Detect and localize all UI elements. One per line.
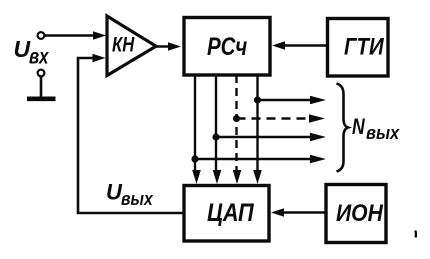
scan artifact mark (414, 231, 417, 238)
svg-text:ИОН: ИОН (336, 200, 383, 227)
comparator KН (107, 16, 156, 76)
svg-text:вых: вых (121, 188, 154, 210)
svg-text:вх: вх (29, 46, 50, 69)
wire comparator output to РСч (156, 42, 181, 51)
block РСч (184, 18, 270, 76)
output arrow 2 (dashed) (237, 114, 326, 123)
svg-text:ГТИ: ГТИ (344, 33, 385, 60)
ground (27, 77, 56, 99)
junction dot on bus 2 (212, 133, 219, 140)
input terminal (Uвх) (38, 32, 45, 39)
feedback wire ЦАП to comparator (Uвых net) (78, 54, 184, 213)
svg-text:N: N (352, 115, 365, 139)
junction dot on bus 4 (254, 96, 261, 103)
junction dot on bus 3 (233, 115, 240, 122)
output arrow 1 (258, 96, 327, 105)
svg-text:ЦАП: ЦАП (207, 199, 255, 227)
label Nвых (352, 115, 400, 143)
wire ИОН to ЦАП (271, 208, 326, 217)
svg-text:вых: вых (366, 122, 400, 143)
lower terminal (38, 70, 45, 77)
output arrow 4 (195, 155, 326, 164)
block ИОН (326, 185, 386, 243)
output arrow 3 (216, 133, 326, 142)
block ГТИ (328, 19, 389, 77)
wire ГТИ to РСч (272, 41, 328, 50)
junction dot on bus 1 (191, 155, 198, 162)
bus wire 1 (РСч to ЦАП) (192, 75, 201, 184)
block ЦАП (184, 186, 269, 242)
svg-text:КН: КН (112, 34, 134, 57)
bus wire 2 (213, 75, 222, 184)
label Uвых (106, 180, 154, 210)
svg-text:РСч: РСч (207, 32, 247, 60)
bus wire 4 (253, 75, 262, 184)
brace Nвых (337, 84, 349, 172)
bus wire 3 (dashed) (233, 75, 242, 184)
label Uвх (14, 36, 50, 69)
wire Uвх to comparator input 1 (45, 31, 107, 40)
